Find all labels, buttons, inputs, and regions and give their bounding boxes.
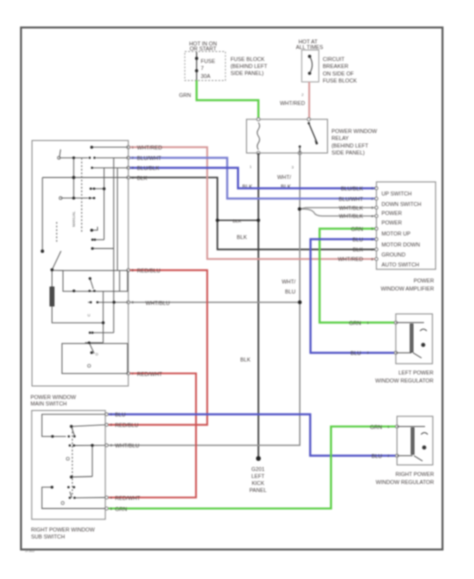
svg-text:RED/BLU: RED/BLU: [115, 423, 138, 429]
svg-text:2: 2: [132, 156, 134, 160]
svg-text:4: 4: [371, 214, 373, 218]
svg-text:BLK: BLK: [353, 248, 364, 254]
relay pin bottom-mid: [298, 151, 301, 154]
fuse block name label: [231, 57, 269, 77]
svg-text:RELAY: RELAY: [332, 136, 350, 142]
svg-text:5: 5: [371, 227, 373, 231]
svg-text:BLU: BLU: [353, 237, 364, 243]
svg-text:RED/BLU: RED/BLU: [137, 269, 160, 275]
svg-text:30A: 30A: [201, 74, 211, 80]
right regulator name label: [376, 472, 434, 486]
svg-text:WHT/: WHT/: [277, 175, 291, 181]
svg-text:BLK: BLK: [233, 218, 243, 223]
wire BLU: sub switch pin1 to right regulator: [109, 414, 398, 455]
svg-text:CIRCUIT: CIRCUIT: [323, 57, 346, 63]
svg-text:RED/WHT: RED/WHT: [115, 496, 141, 502]
svg-text:GRN: GRN: [179, 93, 191, 99]
svg-text:2: 2: [388, 454, 390, 458]
wire WHT/RED: main switch to amplifier AUTO SWITCH: [130, 147, 377, 259]
svg-text:6: 6: [371, 238, 373, 242]
svg-text:WHT/: WHT/: [282, 280, 296, 286]
relay pin top-right: [307, 118, 310, 121]
svg-text:LEFT: LEFT: [251, 474, 265, 480]
svg-text:WHT/RED: WHT/RED: [137, 146, 162, 152]
amplifier wire labels: [338, 187, 364, 264]
svg-text:FUSE BLOCK: FUSE BLOCK: [231, 57, 266, 63]
svg-text:AUTO SWITCH: AUTO SWITCH: [382, 262, 420, 268]
svg-text:4: 4: [132, 176, 134, 180]
amplifier pin function labels: [382, 192, 422, 269]
svg-text:BLU: BLU: [351, 351, 362, 357]
svg-text:2: 2: [371, 197, 373, 201]
svg-text:SIDE PANEL): SIDE PANEL): [231, 71, 264, 77]
right regulator box: [397, 416, 433, 465]
wire WHT/BLU branch to main switch: [130, 280, 302, 305]
svg-text:WHT/RED: WHT/RED: [280, 101, 305, 107]
svg-text:POWER WINDOW: POWER WINDOW: [31, 395, 77, 401]
main switch pins: [127, 146, 130, 375]
svg-text:PANEL: PANEL: [249, 488, 266, 494]
svg-text:WHT/RED: WHT/RED: [338, 257, 363, 263]
left regulator motor M1: [396, 323, 427, 358]
tiny pin numbers main switch: [132, 146, 134, 376]
svg-text:WINDOW REGULATOR: WINDOW REGULATOR: [376, 480, 434, 486]
fuse block label HOT IN ON: [189, 42, 217, 53]
main switch contact dots: [41, 146, 116, 354]
wire BLU/WHT: main switch to amplifier DOWN SWITCH: [130, 158, 377, 199]
right regulator motor M2: [397, 427, 428, 462]
relay pin numbers and wire labels below: [242, 165, 293, 191]
relay pin bottom-left: [257, 151, 260, 154]
main switch box: [32, 141, 128, 387]
sub switch pins: [105, 413, 108, 510]
svg-text:GROUND: GROUND: [382, 252, 406, 258]
svg-text:5: 5: [132, 269, 134, 273]
svg-text:BLK: BLK: [137, 176, 148, 182]
sub switch contact dots: [51, 425, 94, 499]
wire WHT/BLU: relay output down to sub switch: [109, 153, 300, 445]
svg-text:SUB SWITCH: SUB SWITCH: [31, 535, 65, 541]
svg-text:1: 1: [250, 165, 252, 169]
main switch wire labels: [137, 146, 170, 378]
svg-text:1: 1: [367, 321, 369, 325]
wire WHT/RED breaker to relay: [280, 82, 309, 118]
circuit breaker element: [308, 55, 312, 75]
left regulator name label: [375, 371, 433, 385]
svg-text:1: 1: [110, 413, 112, 417]
svg-text:D: D: [96, 353, 99, 357]
svg-text:RIGHT POWER WINDOW: RIGHT POWER WINDOW: [31, 528, 96, 534]
svg-text:(BEHIND LEFT: (BEHIND LEFT: [231, 64, 269, 70]
svg-text:BLU/BLK: BLU/BLK: [341, 187, 364, 193]
relay switch blade: [299, 122, 318, 153]
wire RED/WHT: main switch to sub switch pin 4: [109, 373, 197, 497]
left regulator pins: [394, 321, 397, 324]
main switch small position labels: [58, 156, 99, 367]
right regulator pins: [396, 425, 399, 428]
svg-text:2: 2: [367, 351, 369, 355]
svg-text:BLK: BLK: [237, 235, 248, 241]
sub switch internals: [42, 414, 105, 508]
svg-text:4: 4: [110, 496, 112, 500]
sub switch box: [32, 411, 106, 520]
fuse F: [195, 52, 216, 80]
sub switch name label: [31, 528, 96, 541]
left regulator box: [396, 314, 433, 364]
svg-text:6: 6: [132, 301, 134, 305]
amplifier box: [376, 182, 435, 269]
svg-text:MANUAL: MANUAL: [72, 211, 76, 227]
svg-text:3: 3: [371, 206, 373, 210]
svg-text:FUSE BLOCK: FUSE BLOCK: [323, 79, 358, 85]
svg-text:BLU/WHT: BLU/WHT: [339, 197, 364, 203]
circuit breaker box: [302, 50, 319, 82]
svg-text:GRN: GRN: [370, 425, 382, 431]
relay pin top-left: [257, 118, 260, 121]
svg-text:WINDOW AMPLIFIER: WINDOW AMPLIFIER: [381, 287, 434, 293]
relay name label: [332, 129, 378, 157]
wire BLK main switch to amplifier GROUND: [130, 178, 377, 250]
svg-text:SIDE PANEL): SIDE PANEL): [332, 151, 365, 157]
wire BLK net: relay coil to ground G201: [257, 153, 259, 459]
svg-text:1: 1: [388, 425, 390, 429]
svg-text:3: 3: [292, 166, 294, 170]
svg-text:WHT/BLK: WHT/BLK: [339, 214, 363, 220]
wire BLK crosslink: [217, 219, 258, 221]
svg-text:8: 8: [371, 257, 373, 261]
tiny pin numbers amplifier: [371, 187, 373, 262]
main switch internals: [42, 147, 128, 373]
svg-text:WHT/BLU: WHT/BLU: [115, 444, 139, 450]
svg-text:G201: G201: [251, 467, 264, 473]
relay K1 power window relay box: [247, 119, 328, 153]
fuse block dashed box: [185, 52, 226, 81]
junction dots BLK: [216, 219, 219, 222]
svg-text:7: 7: [371, 248, 373, 252]
circuit breaker label HOT AT ALL TIMES: [296, 40, 324, 52]
svg-text:WHT/BLU: WHT/BLU: [146, 301, 170, 307]
svg-text:BLU: BLU: [372, 454, 383, 460]
svg-text:FUSE: FUSE: [201, 59, 216, 65]
svg-text:LEFT POWER: LEFT POWER: [399, 371, 434, 377]
svg-text:GRN: GRN: [115, 507, 127, 513]
svg-text:WINDOW REGULATOR: WINDOW REGULATOR: [375, 379, 433, 385]
svg-text:U: U: [88, 314, 91, 318]
svg-text:POWER: POWER: [382, 211, 402, 217]
svg-text:GRN: GRN: [351, 227, 363, 233]
main switch name label: [31, 395, 77, 408]
svg-text:RED/WHT: RED/WHT: [137, 372, 163, 378]
sub switch position circles: [61, 457, 69, 504]
svg-text:MAIN SWITCH: MAIN SWITCH: [31, 402, 67, 408]
svg-text:BLU: BLU: [285, 290, 296, 296]
wire GRN fuse to relay: [179, 80, 258, 117]
tiny pin numbers sub switch: [110, 413, 112, 511]
wire GRN: sub switch pin5 to right regulator: [109, 427, 398, 509]
svg-text:2: 2: [302, 93, 304, 97]
svg-text:7: 7: [201, 66, 204, 72]
svg-text:3: 3: [110, 444, 112, 448]
svg-text:GRN: GRN: [349, 321, 361, 327]
svg-text:BLK: BLK: [240, 358, 251, 364]
amplifier name label: [381, 279, 434, 293]
wire BLU: amplifier MOTOR DOWN to left regulator: [311, 239, 396, 353]
svg-text:3: 3: [132, 166, 134, 170]
svg-text:7: 7: [132, 372, 134, 376]
svg-text:MOTOR UP: MOTOR UP: [382, 232, 411, 238]
svg-text:2: 2: [110, 423, 112, 427]
fork to amplifier POWER pins: [298, 207, 377, 216]
svg-text:KICK: KICK: [252, 481, 265, 487]
svg-text:POWER: POWER: [382, 220, 402, 226]
tiny pin numbers regulators: [367, 321, 390, 458]
svg-text:ON SIDE OF: ON SIDE OF: [323, 71, 355, 77]
sub switch wire labels: [115, 413, 141, 513]
svg-text:BLU: BLU: [115, 413, 126, 419]
svg-text:MOTOR DOWN: MOTOR DOWN: [382, 242, 421, 248]
svg-text:5: 5: [110, 507, 112, 511]
svg-text:BREAKER: BREAKER: [323, 64, 349, 70]
amplifier pins: [375, 187, 378, 261]
svg-text:57365: 57365: [25, 549, 35, 553]
svg-text:UP SWITCH: UP SWITCH: [382, 192, 412, 198]
svg-text:BLU/WHT: BLU/WHT: [137, 156, 162, 162]
svg-text:POWER WINDOW: POWER WINDOW: [332, 129, 378, 135]
wire GRN: amplifier MOTOR UP to left regulator: [320, 229, 396, 323]
svg-text:DOWN SWITCH: DOWN SWITCH: [382, 202, 422, 208]
ground G201: [249, 456, 266, 494]
svg-text:RIGHT POWER: RIGHT POWER: [395, 472, 434, 478]
svg-text:WHT/BLK: WHT/BLK: [339, 206, 363, 212]
circuit breaker name label: [323, 57, 358, 85]
wire RED/BLU: main switch to sub switch pin 2: [109, 270, 208, 425]
wire BLU/BLK: main switch to amplifier UP SWITCH: [130, 168, 377, 189]
svg-text:1: 1: [132, 146, 134, 150]
relay coil: [257, 123, 259, 150]
svg-text:BLU/BLK: BLU/BLK: [137, 166, 160, 172]
svg-text:(BEHIND LEFT: (BEHIND LEFT: [332, 143, 370, 149]
svg-text:1: 1: [371, 187, 373, 191]
svg-text:POWER: POWER: [414, 279, 434, 285]
